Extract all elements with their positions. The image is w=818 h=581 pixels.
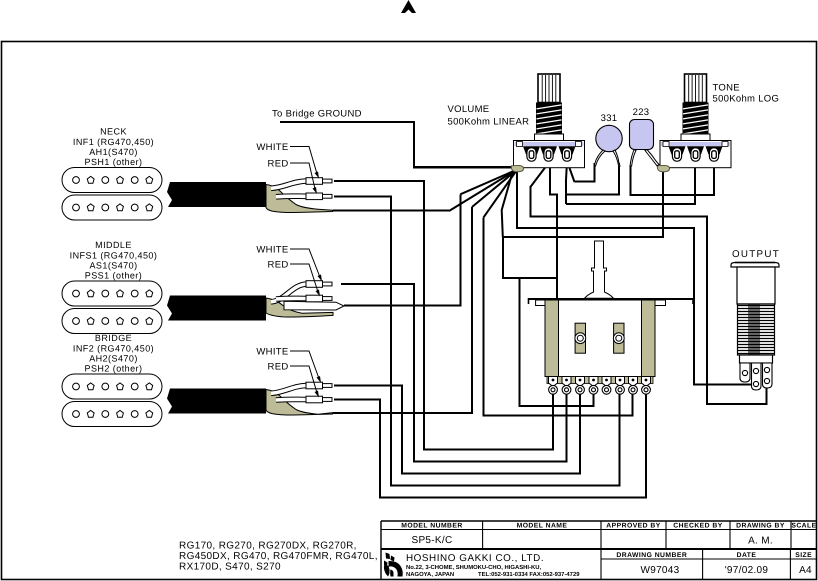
svg-text:OUTPUT: OUTPUT [732, 249, 780, 260]
svg-text:WHITE: WHITE [256, 245, 288, 256]
svg-text:WHITE: WHITE [256, 142, 288, 153]
svg-text:AH1(S470): AH1(S470) [89, 147, 138, 157]
svg-text:PSS1 (other): PSS1 (other) [85, 271, 142, 281]
svg-text:To Bridge GROUND: To Bridge GROUND [272, 109, 362, 120]
svg-text:A. M.: A. M. [748, 536, 773, 547]
svg-text:APPROVED BY: APPROVED BY [606, 523, 660, 530]
svg-text:500Kohm LOG: 500Kohm LOG [713, 94, 780, 105]
svg-text:INF1 (RG470,450): INF1 (RG470,450) [73, 137, 154, 147]
svg-text:A4: A4 [799, 565, 812, 576]
svg-text:MODEL NAME: MODEL NAME [517, 523, 568, 530]
svg-text:MODEL NUMBER: MODEL NUMBER [401, 523, 463, 530]
svg-text:DRAWING NUMBER: DRAWING NUMBER [616, 552, 687, 559]
svg-text:RED: RED [268, 260, 289, 271]
svg-text:PSH1 (other): PSH1 (other) [85, 157, 143, 167]
svg-text:SP5-K/C: SP5-K/C [411, 535, 452, 546]
svg-text:PSH2 (other): PSH2 (other) [85, 364, 143, 374]
svg-text:VOLUME: VOLUME [448, 104, 490, 115]
svg-text:CHECKED BY: CHECKED BY [673, 523, 722, 530]
svg-text:AH2(S470): AH2(S470) [89, 354, 138, 364]
svg-text:No.22, 3-CHOME, SHUMOKU-CHO, H: No.22, 3-CHOME, SHUMOKU-CHO, HIGASHI-KU, [406, 564, 542, 571]
svg-text:NECK: NECK [100, 127, 127, 137]
svg-text:DATE: DATE [737, 552, 757, 559]
svg-text:'97/02.09: '97/02.09 [725, 565, 769, 576]
svg-text:NAGOYA, JAPAN: NAGOYA, JAPAN [406, 571, 454, 578]
svg-text:TONE: TONE [713, 83, 740, 94]
svg-text:BRIDGE: BRIDGE [95, 333, 132, 343]
svg-text:MIDDLE: MIDDLE [95, 240, 132, 250]
svg-text:DRAWING BY: DRAWING BY [736, 523, 785, 530]
svg-text:TEL:052-931-0334 FAX:052-937-: TEL:052-931-0334 FAX:052-937-4729 [478, 571, 580, 578]
svg-text:RX170D, S470, S270: RX170D, S470, S270 [179, 562, 281, 573]
svg-text:W97043: W97043 [640, 565, 679, 576]
svg-text:INFS1 (RG470,450): INFS1 (RG470,450) [70, 250, 158, 260]
svg-text:223: 223 [633, 107, 650, 118]
svg-text:RED: RED [268, 362, 289, 373]
svg-text:SCALE: SCALE [791, 523, 816, 530]
svg-text:500Kohm LINEAR: 500Kohm LINEAR [448, 117, 530, 128]
svg-text:WHITE: WHITE [256, 347, 288, 358]
svg-text:RED: RED [268, 159, 289, 170]
svg-text:SIZE: SIZE [795, 552, 812, 559]
svg-text:RG170, RG270, RG270DX, RG270R,: RG170, RG270, RG270DX, RG270R, [179, 541, 357, 552]
svg-text:AS1(S470): AS1(S470) [89, 261, 137, 271]
svg-text:RG450DX, RG470, RG470FMR, RG47: RG450DX, RG470, RG470FMR, RG470L, [179, 551, 378, 562]
svg-text:HOSHINO GAKKI CO., LTD.: HOSHINO GAKKI CO., LTD. [406, 553, 544, 564]
svg-text:331: 331 [601, 113, 618, 124]
svg-text:INF2 (RG470,450): INF2 (RG470,450) [73, 343, 154, 353]
